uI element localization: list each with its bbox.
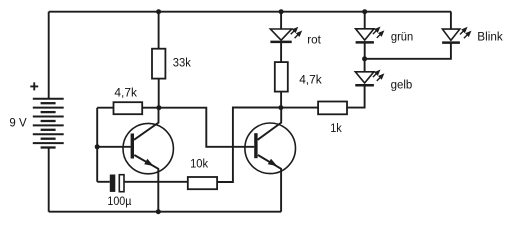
LED D3 grün triangle <box>356 29 374 40</box>
node dot B (Q2 collector) <box>278 105 283 110</box>
wire 1k to gelb LED <box>347 85 365 107</box>
resistor R4 4,7k <box>275 62 288 92</box>
Q2 emitter arrowhead <box>268 159 277 166</box>
wire 4,7k to node B <box>280 92 282 108</box>
LED D4 emission arrows <box>460 27 472 38</box>
node dot Q1 base <box>95 144 100 149</box>
battery B1 9V <box>33 99 64 148</box>
transistor Q1 <box>123 123 173 173</box>
node dot top rail / grün LED <box>362 9 367 14</box>
wire left branch top (to 4,7k) <box>97 107 113 109</box>
Q1 emitter arrowhead <box>144 159 153 166</box>
wire battery positive lead <box>48 12 50 99</box>
svg-text:9 V: 9 V <box>9 115 27 129</box>
wire battery negative lead <box>48 148 50 212</box>
node dot ground rail / Q1 emitter <box>156 209 161 214</box>
transistor Q2 <box>245 123 296 174</box>
LED D1 rot cathode bar <box>270 41 291 44</box>
svg-text:10k: 10k <box>190 156 209 170</box>
wire 33k bottom lead <box>158 79 160 108</box>
Q2 base bar <box>254 133 257 158</box>
wire capacitor left lead <box>97 181 110 183</box>
Q1 base bar <box>131 134 134 159</box>
svg-text:100µ: 100µ <box>107 194 131 208</box>
wire Q1 base lead <box>97 146 130 148</box>
wire 33k top lead <box>158 12 160 49</box>
capacitor C1 negative plate <box>119 175 124 192</box>
svg-text:gelb: gelb <box>391 78 413 92</box>
node dot top rail / 33k <box>156 9 161 14</box>
Q2 collector lead <box>258 108 282 140</box>
wire node B to 1k <box>281 107 318 109</box>
node dot top rail / rot LED <box>279 9 284 14</box>
label + (battery positive) <box>30 82 38 90</box>
svg-text:4,7k: 4,7k <box>299 72 322 86</box>
wire grün LED cathode to node C <box>364 42 366 58</box>
LED D2 gelb cathode bar <box>355 84 374 87</box>
wire R2 right lead to node A <box>142 107 159 109</box>
wire rot LED to 4,7k <box>280 42 282 62</box>
Q1 emitter lead <box>134 155 158 212</box>
wire node C to Blink LED <box>365 43 451 59</box>
resistor R2 4,7k <box>114 102 143 114</box>
resistor R5 1k <box>318 102 347 115</box>
wire gelb anode to node C <box>364 59 366 72</box>
LED D1 rot triangle <box>270 29 291 40</box>
node dot A (33k / Q1 collector) <box>156 105 161 110</box>
wire 10k right lead up to node B <box>217 108 281 183</box>
Q1 collector lead <box>134 108 159 140</box>
LED D4 Blink triangle <box>442 29 459 40</box>
wire Blink anode lead <box>450 12 452 29</box>
svg-text:1k: 1k <box>330 121 342 135</box>
wire rot LED anode lead <box>280 12 282 29</box>
Q2 emitter lead <box>258 155 281 212</box>
LED D3 grün cathode bar <box>356 41 374 44</box>
svg-text:rot: rot <box>307 33 321 47</box>
wire capacitor right lead to 10k <box>124 181 188 183</box>
wire top supply rail <box>49 11 452 13</box>
wire bottom ground rail <box>49 211 281 213</box>
LED D2 emission arrows <box>373 70 385 81</box>
resistor R1 33k <box>152 49 165 79</box>
LED D2 gelb triangle <box>355 72 374 83</box>
svg-text:4,7k: 4,7k <box>114 85 137 99</box>
node dot C (gelb / grün / Blink) <box>362 56 367 61</box>
svg-text:Blink: Blink <box>477 30 503 44</box>
wire node A to Q2 base <box>159 108 254 147</box>
LED D4 Blink cathode bar <box>442 41 460 44</box>
LED D1 emission arrows <box>291 27 303 38</box>
svg-text:33k: 33k <box>173 56 192 70</box>
capacitor C1 100µ positive plate <box>110 175 116 192</box>
wire grün anode lead <box>364 12 366 29</box>
LED D3 emission arrows <box>373 27 385 38</box>
svg-text:grün: grün <box>391 29 413 43</box>
resistor R3 10k <box>188 177 217 189</box>
wire left branch vertical <box>96 108 98 182</box>
